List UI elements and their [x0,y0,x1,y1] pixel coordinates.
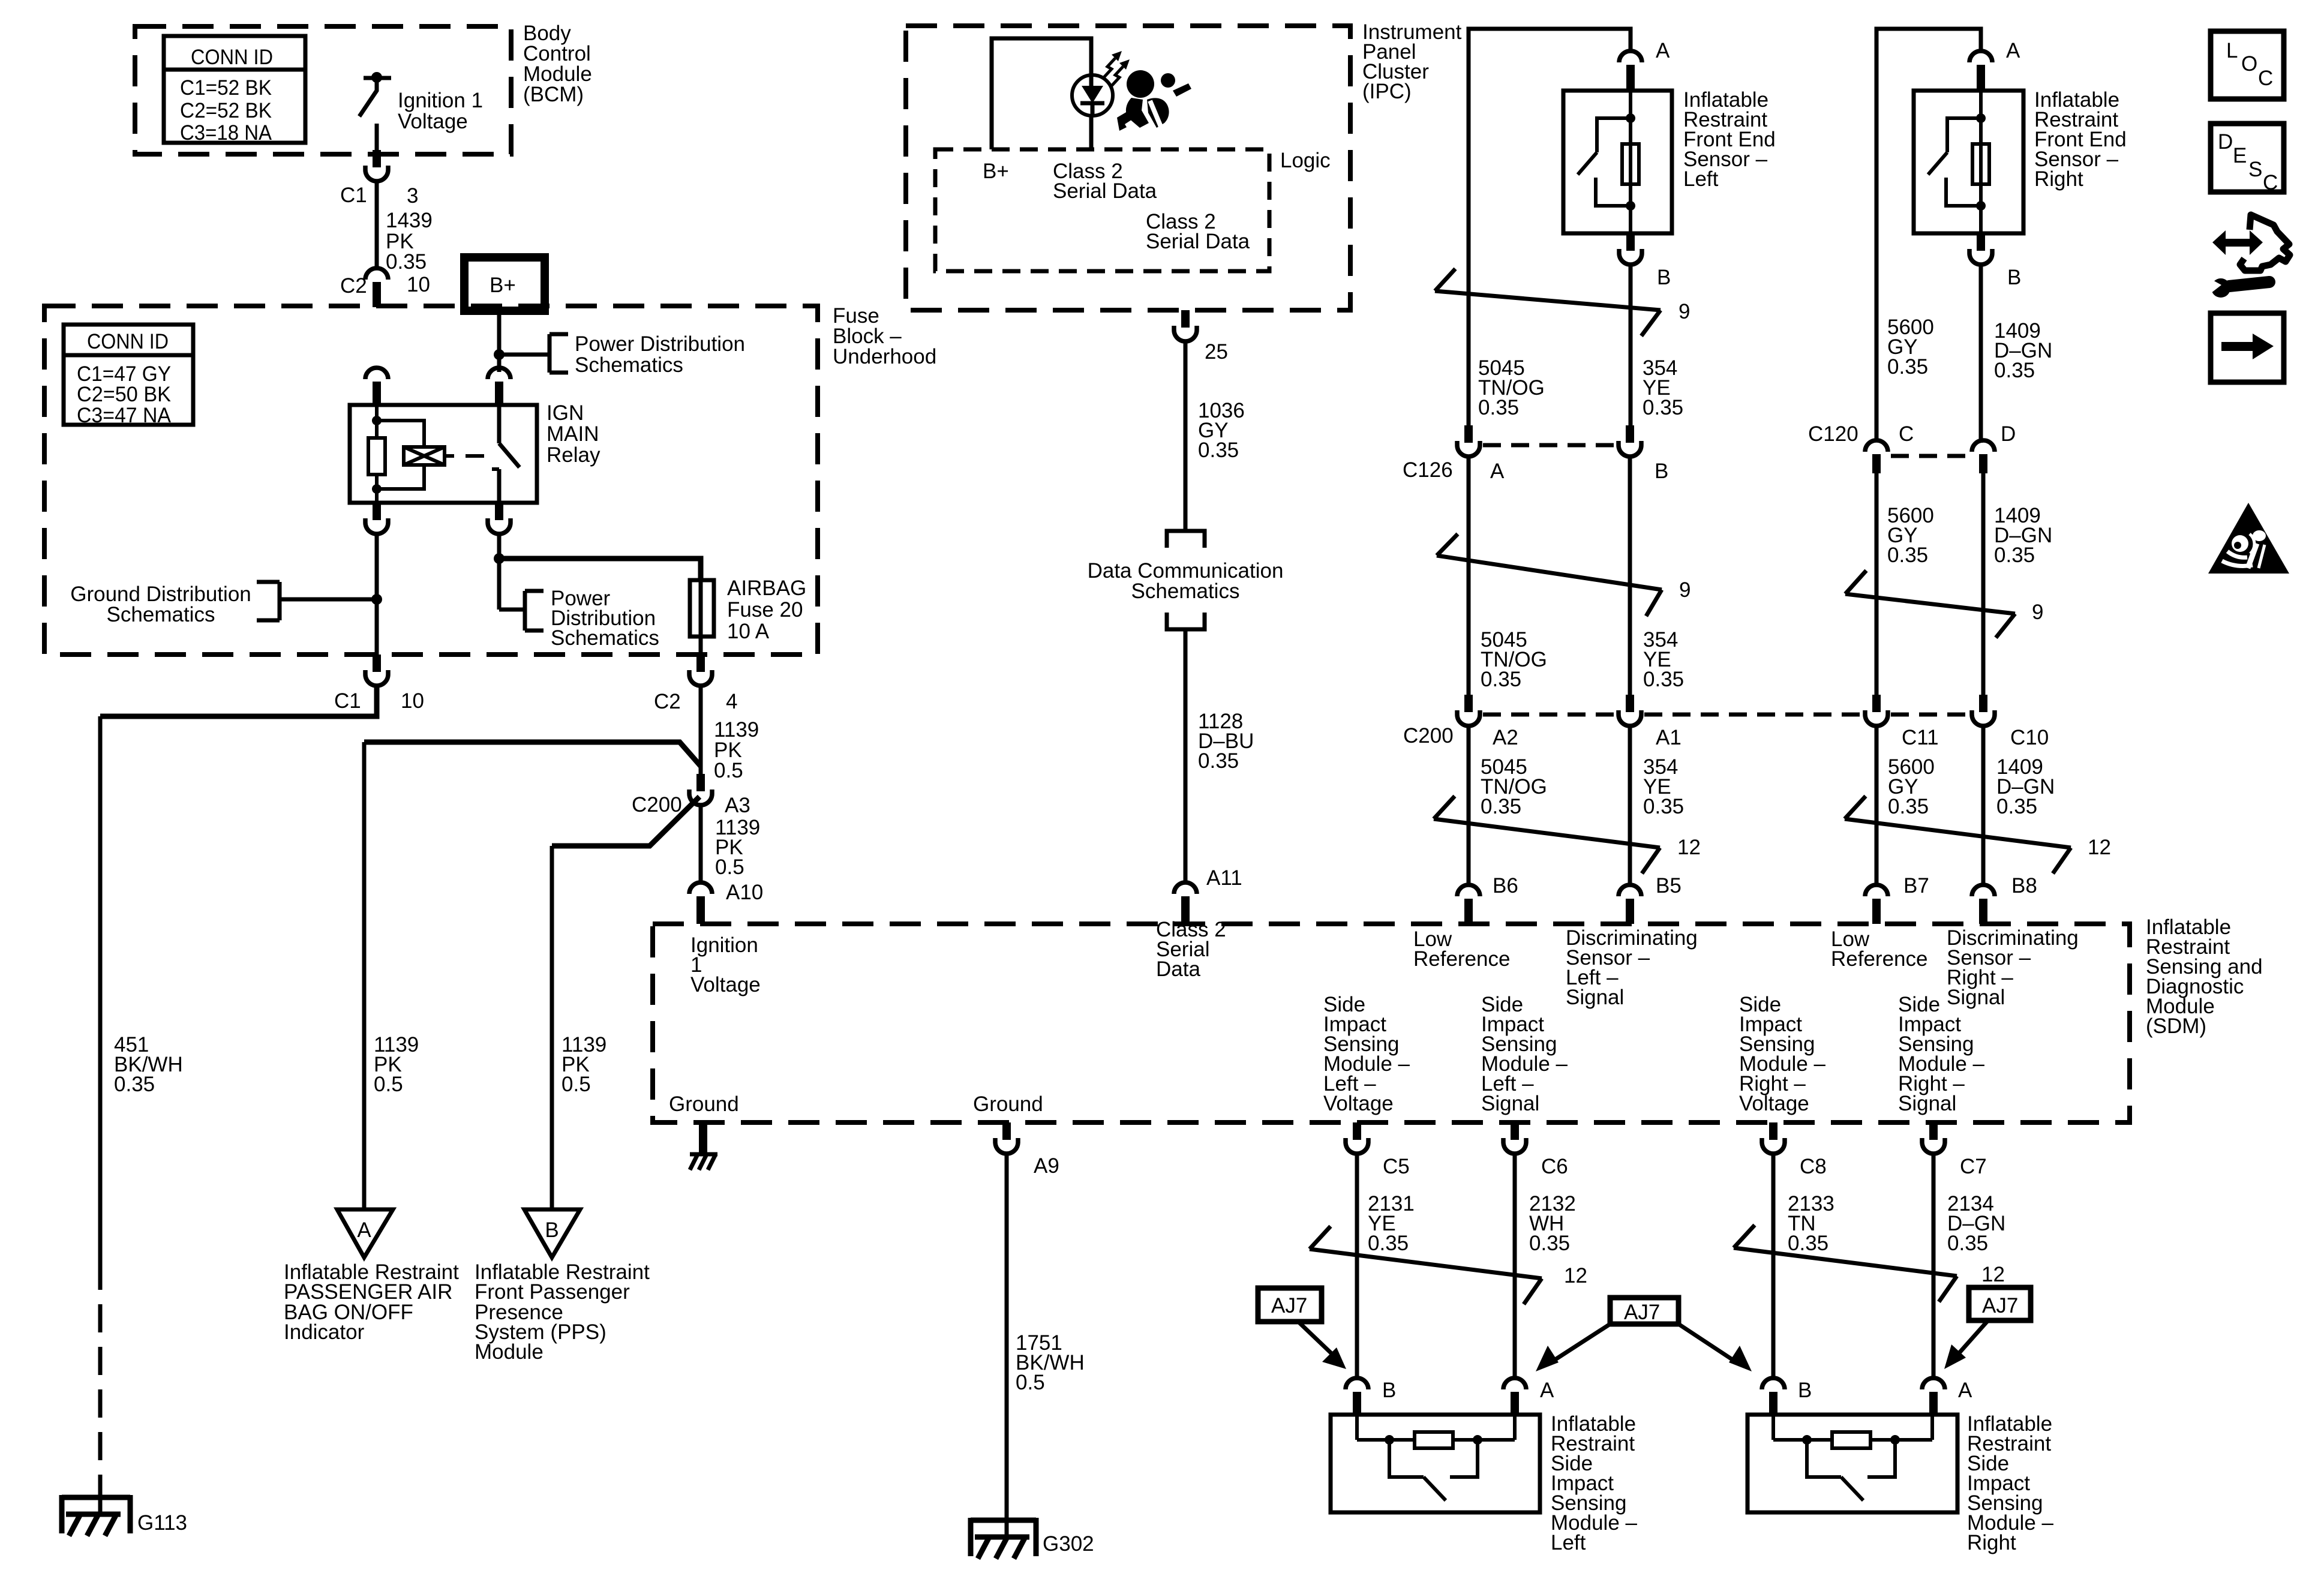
svg-text:C11: C11 [1902,726,1939,749]
wire relay switch output [497,534,502,610]
wire to ground distribution tab [280,598,377,602]
svg-text:3: 3 [407,184,418,208]
connector line C200 [1483,713,1618,717]
sensor box Inflatable Restraint Front End Sensor Right [1914,91,2023,233]
svg-text:0.35: 0.35 [386,250,427,274]
wire 1128 D-BU 0.35 [1184,629,1188,881]
connector C200 pin A3 [689,774,712,805]
wire B+ to indicator lamp [992,38,1091,149]
svg-text:10: 10 [407,273,430,296]
wire 451 BK/WH 0.35 to G113 [98,716,103,1262]
svg-text:12: 12 [1677,836,1701,859]
svg-text:10: 10 [401,689,424,713]
crossing 9 (below C120) [1845,571,2015,638]
svg-text:C5: C5 [1383,1155,1410,1178]
svg-text:C: C [2258,67,2273,90]
wire loop to sensor right [1876,29,1981,440]
svg-text:0.35: 0.35 [1888,795,1929,818]
svg-text:L: L [2226,39,2238,62]
connector C1 pin 3 (BCM output) [365,150,388,181]
svg-text:A: A [1958,1379,1972,1402]
splice box AJ7 (middle) [1610,1298,1679,1324]
svg-text:Signal: Signal [1898,1092,1956,1115]
wire 5045 (C200 A2 to SDM B6) [1467,726,1471,884]
wire 1036 GY 0.35 [1184,341,1188,531]
svg-text:Serial Data: Serial Data [1146,230,1250,253]
svg-text:AJ7: AJ7 [1624,1301,1660,1324]
svg-text:C3=18 NA: C3=18 NA [180,121,272,145]
svg-text:A: A [357,1218,371,1242]
wire B+ feed [497,311,502,372]
table CONN ID (BCM) [164,36,305,145]
wire 1439 PK 0.35 (C1 to C2) [375,181,379,268]
svg-text:9: 9 [1679,578,1691,602]
svg-text:1439: 1439 [386,209,433,232]
connector A (front end sensor left) [1619,51,1642,91]
wire IPC loop to sensor left [1469,29,1631,440]
svg-text:Serial Data: Serial Data [1053,179,1157,203]
connector C200 pin A1 [1619,695,1641,726]
connector A9 (SDM exit) [995,1122,1018,1154]
svg-text:0.5: 0.5 [374,1073,403,1096]
svg-text:12: 12 [1981,1263,2005,1286]
icon airbag warning (IPC) [1117,70,1191,131]
svg-text:Ground: Ground [973,1092,1043,1116]
svg-text:B: B [1655,460,1668,483]
offpage triangle A (PASSENGER AIR BAG indicator) [337,1209,393,1257]
svg-text:Voltage: Voltage [1739,1092,1809,1115]
svg-text:Ignition 1: Ignition 1 [398,89,483,112]
connector line C120 [1891,454,1969,458]
svg-text:B: B [1798,1379,1812,1402]
wire 1409 D-GN 0.35 (sensor B to C120) [1979,265,1983,443]
connector B5 (SDM) [1619,885,1641,924]
connector B (front end sensor left) [1619,233,1642,265]
svg-text:12: 12 [1564,1264,1587,1287]
svg-text:B: B [2007,266,2021,289]
svg-text:Module: Module [475,1340,544,1364]
svg-text:C3=47 NA: C3=47 NA [77,404,172,427]
svg-text:0.5: 0.5 [715,855,744,879]
wire to power distribution tab (lower) [499,608,525,612]
wire 5045 TN/OG (C126 A to C200 A2) [1467,457,1471,695]
icon LOC [2211,31,2284,99]
module box side impact sensing module left [1331,1415,1540,1512]
connector B6 (SDM) [1457,885,1480,924]
crossing 9 (above C126) [1435,269,1661,336]
svg-text:B8: B8 [2011,874,2037,897]
svg-text:C10: C10 [2010,726,2049,749]
svg-text:A1: A1 [1656,726,1682,749]
svg-text:A: A [1656,39,1670,62]
svg-text:C200: C200 [1403,724,1454,748]
svg-text:IGN: IGN [547,401,584,425]
svg-text:25: 25 [1205,340,1228,364]
connector line C126 [1483,443,1618,448]
table CONN ID (fuse block) [64,325,193,427]
svg-text:0.35: 0.35 [1994,544,2035,567]
svg-text:Left: Left [1551,1531,1586,1554]
svg-text:A3: A3 [725,794,750,817]
logic box (dashed) [935,149,1269,271]
node B+ branch [494,349,505,360]
svg-text:Schematics: Schematics [107,603,215,626]
connector relay switch exit [488,503,511,534]
svg-text:0.35: 0.35 [1368,1232,1409,1255]
svg-text:Signal: Signal [1947,986,2005,1009]
svg-text:C8: C8 [1800,1155,1827,1178]
svg-text:D: D [2001,422,2016,446]
connector relay coil exit [365,503,388,534]
wire 354 (C200 A1 to SDM B5) [1628,726,1632,884]
svg-text:(BCM): (BCM) [523,83,584,106]
svg-text:0.35: 0.35 [1887,544,1928,567]
svg-text:AIRBAG: AIRBAG [727,577,806,600]
wire 5600 (C200 C11 to SDM B7) [1875,726,1879,884]
svg-text:O: O [2241,52,2257,76]
wire branch to PAB indicator (A) [364,742,701,766]
svg-text:0.35: 0.35 [1478,396,1519,419]
relay coil branch wires [372,405,424,503]
svg-text:Left: Left [1683,167,1719,191]
svg-text:12: 12 [2088,836,2111,859]
offpage tab Power Distribution Schematics (lower) [525,591,544,631]
connector B (side impact module left) [1346,1378,1368,1415]
power symbol B+ [464,257,545,311]
crossing 12 (right pair) [1845,796,2071,873]
wire 2134 D-GN (C7 to module right A) [1932,1154,1936,1379]
svg-text:C2: C2 [654,690,681,713]
module box Inflatable Restraint Sensing and Diagnostic Module (dashed) [653,924,2130,1122]
svg-text:Voltage: Voltage [690,973,761,996]
module box Instrument Panel Cluster (dashed) [906,26,1350,310]
svg-text:0.35: 0.35 [1996,795,2037,818]
icon airbag caution triangle [2208,503,2289,574]
svg-text:C126: C126 [1403,458,1453,482]
connector A (front end sensor right) [1969,51,1992,91]
wire 5600 (C120 to C200) [1875,473,1879,695]
svg-text:Indicator: Indicator [284,1320,365,1344]
connector A11 (SDM) [1174,882,1197,924]
svg-text:0.35: 0.35 [1994,359,2035,382]
svg-text:0.35: 0.35 [1481,668,1521,691]
wire 1139 PK 0.5 (C2 to C200) [699,686,703,774]
ground SDM case [690,1122,717,1170]
svg-text:0.35: 0.35 [1643,795,1684,818]
wire 354 YE (C126 B to C200 A1) [1628,457,1632,695]
svg-text:C1: C1 [340,184,367,207]
svg-text:Right: Right [2034,167,2083,191]
svg-text:9: 9 [2032,601,2043,624]
connector C2 pin 4 (fuse block exit) [689,655,712,686]
svg-text:Schematics: Schematics [1131,580,1240,603]
svg-text:0.35: 0.35 [1529,1232,1570,1255]
svg-text:C: C [1899,422,1914,446]
ground G302 [971,1518,1036,1559]
svg-text:4: 4 [726,690,737,713]
ground G113 [62,1495,130,1536]
svg-text:0.35: 0.35 [1481,795,1521,818]
svg-text:Voltage: Voltage [398,110,468,133]
svg-text:A9: A9 [1034,1154,1059,1178]
arrow AJ7 right [1944,1320,1988,1369]
crossing 12 (left pair) [1434,796,1660,873]
svg-text:A: A [1490,460,1505,483]
svg-text:C2=50 BK: C2=50 BK [77,383,171,406]
svg-text:C6: C6 [1541,1155,1568,1178]
wire 354 YE 0.35 (sensor B to C126) [1629,265,1633,426]
connector B (side impact module right) [1762,1378,1785,1415]
svg-text:B5: B5 [1656,874,1682,897]
svg-text:Power Distribution: Power Distribution [575,332,745,356]
connector C5 (SDM exit) [1346,1122,1368,1154]
offpage tab Ground Distribution Schematics [257,582,280,620]
svg-text:0.5: 0.5 [562,1073,591,1096]
svg-text:(SDM): (SDM) [2146,1014,2206,1038]
svg-text:Schematics: Schematics [575,353,683,377]
svg-text:0.5: 0.5 [1016,1371,1045,1394]
svg-text:Signal: Signal [1481,1092,1539,1115]
crossing 9 (below C126) [1437,534,1662,616]
svg-text:A10: A10 [726,881,763,904]
svg-text:Relay: Relay [547,443,600,467]
svg-text:0.35: 0.35 [1643,668,1684,691]
splice box AJ7 (right) [1969,1287,2031,1320]
connector C126 pin A [1457,425,1480,457]
svg-text:C7: C7 [1960,1155,1987,1178]
connector C8 (SDM exit) [1762,1122,1785,1154]
offpage triangle B (PPS module) [524,1209,580,1257]
side impact left internals [1357,1415,1515,1500]
svg-text:Signal: Signal [1566,986,1624,1009]
svg-text:0.35: 0.35 [1198,749,1239,773]
lamp light arrows [1104,51,1130,86]
svg-text:0.35: 0.35 [1198,439,1239,462]
svg-text:G113: G113 [137,1511,187,1535]
sensor box Inflatable Restraint Front End Sensor Left [1563,91,1672,233]
connector B7 (SDM) [1865,885,1888,924]
module box side impact sensing module right [1747,1415,1957,1512]
svg-text:CONN ID: CONN ID [87,330,169,353]
svg-text:0.5: 0.5 [714,759,743,782]
wire branch to PPS module (B) [552,797,699,846]
svg-text:Reference: Reference [1413,947,1510,971]
svg-text:B: B [1382,1379,1396,1402]
wire 1409 (C200 C10 to SDM B8) [1981,726,1986,884]
connector B (front end sensor right) [1969,233,1992,265]
svg-text:C: C [2263,171,2278,194]
svg-text:C200: C200 [632,793,682,816]
svg-text:AJ7: AJ7 [1982,1294,2018,1317]
connector C7 (SDM exit) [1922,1122,1945,1154]
svg-text:D: D [2218,130,2233,154]
svg-text:Fuse 20: Fuse 20 [727,598,803,622]
svg-text:9: 9 [1679,300,1690,323]
connector A10 (SDM) [689,882,712,924]
wire to AIRBAG fuse [499,559,701,580]
connector relay coil entry [365,368,388,406]
connector C200 pin C11 [1865,695,1888,726]
offpage tab Power Distribution Schematics (upper) [550,334,568,373]
wire 2131 YE (C5 to module left B) [1355,1154,1359,1379]
svg-text:C1: C1 [334,689,361,713]
connector C120 pin D [1972,440,1995,473]
switch Ignition 1 (BCM internal) [359,72,391,150]
svg-text:B+: B+ [490,274,516,297]
svg-text:(IPC): (IPC) [1362,80,1412,103]
svg-text:G302: G302 [1043,1532,1094,1556]
arrow AJ7 middle-left [1536,1324,1610,1371]
svg-text:Reference: Reference [1831,947,1927,971]
svg-text:0.35: 0.35 [1788,1232,1828,1255]
svg-text:Right: Right [1967,1531,2016,1554]
connector C200 pin A2 [1457,695,1480,726]
wire fuse to box edge [699,637,703,655]
crossing 12 (C8/C7) [1734,1225,1957,1302]
connector 25 (IPC exit) [1174,310,1197,341]
crossing 12 (C5/C6) [1310,1226,1542,1304]
relay IGN MAIN Relay box [350,405,537,503]
svg-text:AJ7: AJ7 [1271,1294,1307,1317]
svg-text:Underhood: Underhood [833,345,936,368]
svg-text:Logic: Logic [1280,149,1331,172]
svg-text:E: E [2233,144,2247,167]
connector C200 pin C10 [1972,695,1995,726]
svg-text:A: A [1540,1379,1554,1402]
connector B8 (SDM) [1972,885,1995,924]
offpage Data Communication Schematics [1088,531,1284,629]
wire 1409 (C120 to C200) [1981,473,1986,695]
sensor left internals [1578,91,1639,233]
connector C6 (SDM exit) [1503,1122,1526,1154]
svg-text:A: A [2006,39,2020,62]
svg-text:10 A: 10 A [727,620,770,643]
svg-text:C120: C120 [1808,422,1858,446]
svg-text:Data: Data [1156,957,1200,981]
node fuse feed branch [494,553,505,564]
connector C1 pin 10 (fuse block exit) [365,655,388,686]
arrow AJ7 left [1298,1322,1346,1369]
svg-text:Ground: Ground [669,1092,739,1116]
lamp AIR BAG indicator (LED) [1072,75,1113,149]
svg-text:CONN ID: CONN ID [191,46,273,69]
svg-text:C2: C2 [340,274,367,298]
icon arrow (next page) [2211,313,2284,382]
side impact right internals [1773,1415,1932,1500]
svg-text:B: B [1657,266,1671,289]
relay coil (box with X) [404,447,484,465]
icon DESC [2211,124,2284,194]
svg-text:S: S [2248,158,2262,181]
connector C126 pin B [1619,425,1641,457]
svg-text:0.35: 0.35 [1643,396,1683,419]
svg-text:Schematics: Schematics [551,626,659,650]
wire 1139 PK 0.5 (C200 to A10) [699,805,703,881]
module box Fuse Block Underhood (dashed) [44,306,818,655]
fuse AIRBAG Fuse 20 10 A [690,580,714,637]
svg-text:B7: B7 [1903,874,1929,897]
wire 2132 WH (C6 to module left A) [1513,1154,1517,1379]
svg-text:A11: A11 [1206,866,1242,890]
wire C1 to 451 junction [100,686,377,716]
splice box AJ7 (left) [1258,1288,1322,1322]
resistor relay coil shunt [368,438,385,475]
svg-text:0.35: 0.35 [1947,1232,1988,1255]
svg-text:B6: B6 [1493,874,1518,897]
connector A (side impact module right) [1922,1378,1945,1415]
wire relay coil low side to C1 [375,534,379,655]
relay switch contacts [492,405,520,503]
svg-text:0.35: 0.35 [114,1073,155,1096]
sensor right internals [1928,91,1989,233]
connector A (side impact module left) [1503,1378,1526,1415]
svg-text:C2=52 BK: C2=52 BK [180,99,272,122]
svg-text:B+: B+ [983,160,1009,183]
icon diagnostic tool (arrows and wrench) [2204,215,2290,298]
node ground distribution branch [371,594,382,605]
module box BCM (dashed) [135,26,511,154]
arrow AJ7 middle-right [1679,1324,1752,1371]
svg-text:C1=52 BK: C1=52 BK [180,76,272,100]
svg-text:B: B [545,1218,559,1242]
connector C2 pin 10 (fuse block input) [365,268,388,307]
wire 1751 BK/WH 0.5 [1005,1154,1009,1537]
svg-text:MAIN: MAIN [547,422,599,446]
wire to power distribution tab [499,353,550,357]
svg-text:A2: A2 [1493,726,1518,749]
svg-text:Voltage: Voltage [1323,1092,1394,1115]
wire 2133 TN (C8 to module right B) [1771,1154,1776,1379]
svg-text:0.35: 0.35 [1887,355,1928,379]
connector C120 pin C [1865,440,1888,473]
connector relay switch entry [488,368,511,406]
